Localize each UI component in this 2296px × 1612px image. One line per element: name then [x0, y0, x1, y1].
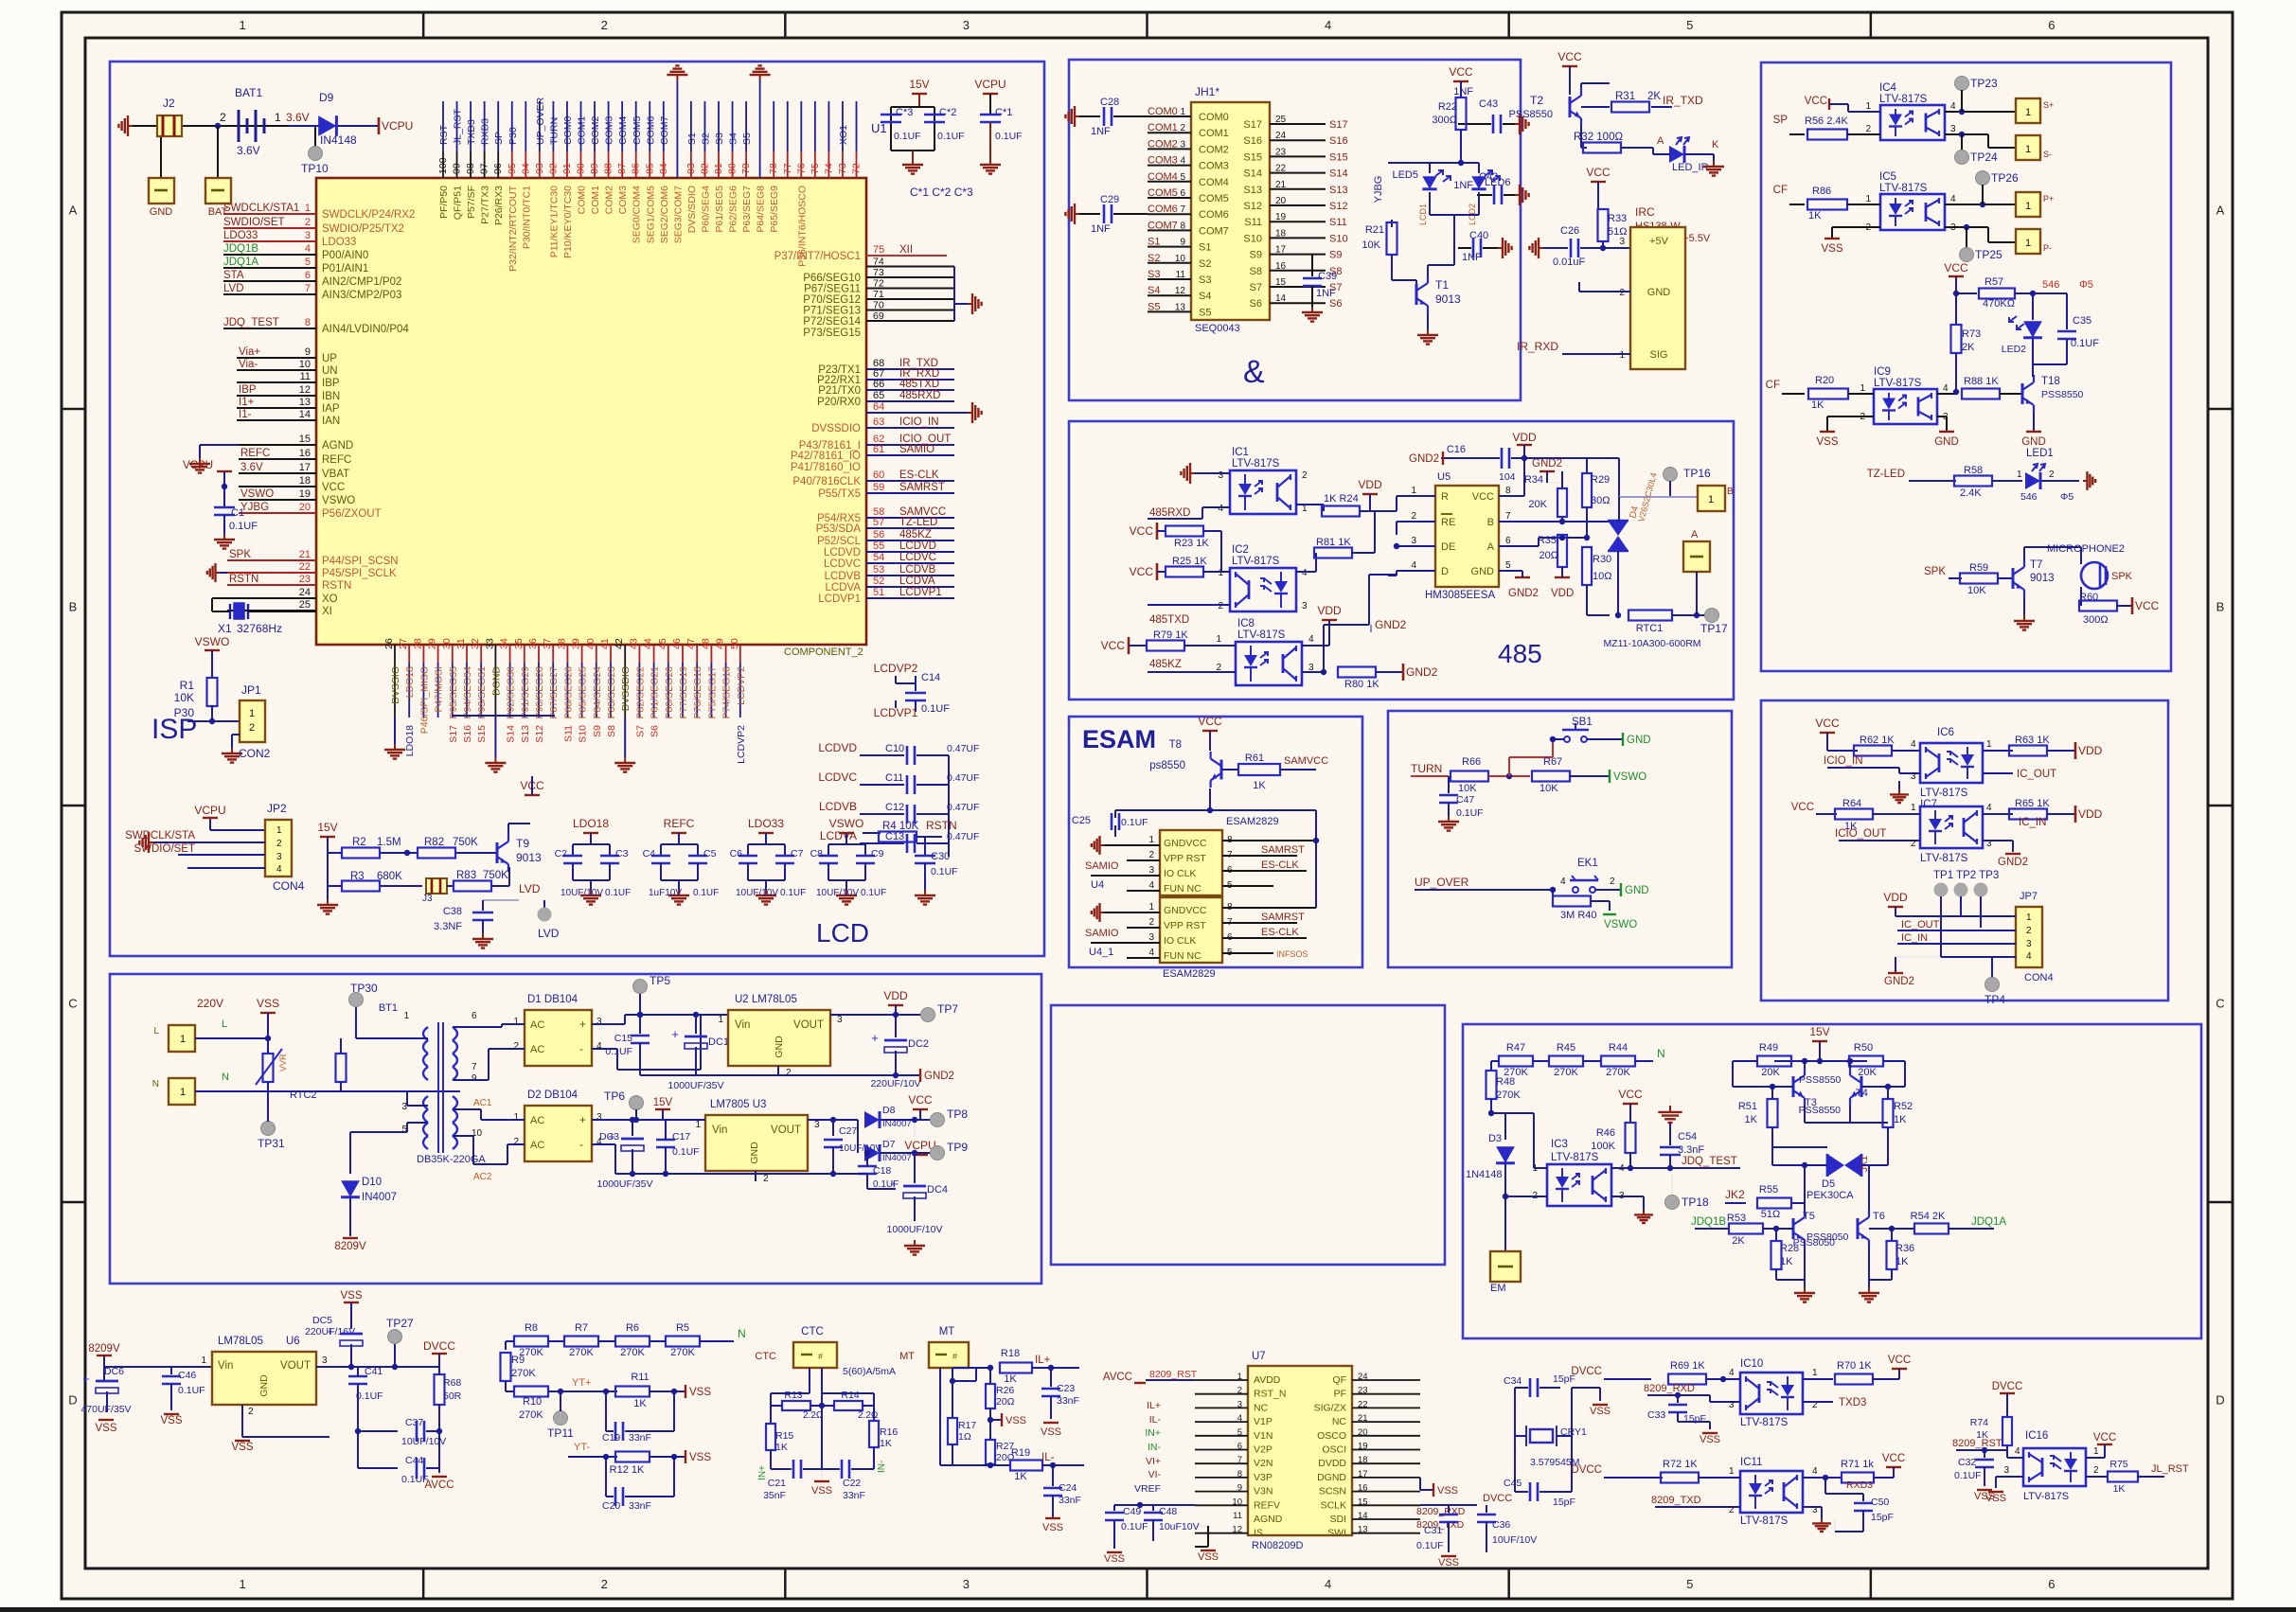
svg-text:JP7: JP7 [2020, 891, 2038, 902]
svg-text:0.47UF: 0.47UF [947, 743, 979, 754]
svg-text:485KZ: 485KZ [899, 529, 932, 540]
svg-text:RSTN: RSTN [926, 819, 957, 832]
svg-text:D: D [68, 1393, 77, 1408]
svg-text:VCC: VCC [1805, 96, 1827, 107]
power flag VDD TP7 [883, 989, 958, 1022]
svg-text:9013: 9013 [516, 851, 542, 864]
svg-text:IC3: IC3 [1551, 1139, 1568, 1150]
svg-text:DGND: DGND [1317, 1472, 1346, 1483]
svg-text:LCDVB: LCDVB [899, 564, 936, 576]
svg-text:P82/SEG22: P82/SEG22 [634, 666, 646, 719]
svg-text:1K: 1K [1896, 1256, 1909, 1267]
svg-text:3.6V: 3.6V [240, 462, 263, 473]
svg-text:4: 4 [1560, 877, 1566, 887]
svg-text:SEG0/COM4: SEG0/COM4 [632, 186, 643, 243]
svg-text:Vin: Vin [218, 1360, 233, 1372]
svg-text:GND2: GND2 [1375, 618, 1407, 631]
svg-text:IAN: IAN [322, 416, 340, 427]
svg-text:37: 37 [542, 638, 553, 649]
svg-text:VCC: VCC [2135, 599, 2160, 612]
svg-text:TP11: TP11 [547, 1426, 574, 1440]
svg-text:C20: C20 [602, 1500, 620, 1512]
svg-text:TP18: TP18 [1682, 1196, 1709, 1209]
svg-text:S16: S16 [1329, 135, 1348, 147]
svg-text:PSS8550: PSS8550 [1799, 1074, 1842, 1086]
svg-text:5: 5 [1505, 560, 1511, 571]
resistor R82 750K [407, 837, 497, 859]
svg-text:35: 35 [513, 638, 525, 649]
svg-text:TURN: TURN [1411, 762, 1442, 775]
svg-text:31: 31 [455, 638, 467, 649]
svg-text:EK1: EK1 [1577, 858, 1598, 869]
wires U4_1 left pins [1085, 928, 1160, 958]
svg-text:10UF/10V: 10UF/10V [1492, 1534, 1537, 1546]
svg-text:100K: 100K [1591, 1141, 1615, 1152]
svg-text:VSWO: VSWO [1604, 919, 1637, 930]
svg-text:RSTN: RSTN [322, 580, 351, 592]
svg-text:IL+: IL+ [1147, 1400, 1161, 1411]
svg-text:20Ω: 20Ω [996, 1396, 1015, 1408]
svg-text:1: 1 [1729, 1466, 1735, 1477]
capacitors C31 C36 DVCC [1416, 1493, 1537, 1568]
svg-text:ps8550: ps8550 [1149, 760, 1185, 771]
svg-text:C33: C33 [1647, 1409, 1665, 1421]
svg-text:2: 2 [1411, 511, 1416, 522]
svg-text:A: A [69, 204, 78, 218]
svg-text:GND2: GND2 [924, 1071, 954, 1082]
svg-text:3.6V: 3.6V [237, 144, 260, 157]
svg-text:X1: X1 [218, 622, 232, 635]
optocoupler IC8 [1148, 618, 1314, 685]
test point TP6 15V [604, 1089, 673, 1123]
resistors R47 R45 R44 row [1491, 1042, 1665, 1078]
svg-text:1: 1 [1148, 902, 1154, 912]
ground bottom stub left [384, 717, 405, 759]
svg-text:9013: 9013 [2030, 573, 2055, 584]
svg-text:AC: AC [530, 1115, 544, 1126]
wires U4 left pins [1085, 860, 1160, 891]
wires U4_1 right pins [1222, 841, 1316, 959]
svg-text:COM0: COM0 [562, 116, 574, 145]
svg-text:P93/SEG31: P93/SEG31 [476, 666, 488, 719]
svg-text:R66: R66 [1462, 756, 1481, 768]
LED2 [2002, 293, 2067, 364]
svg-text:ESAM: ESAM [1082, 725, 1156, 753]
svg-text:ICIO_IN: ICIO_IN [899, 416, 939, 428]
svg-text:S+: S+ [2043, 100, 2054, 110]
svg-text:1: 1 [1911, 803, 1916, 813]
svg-text:T2: T2 [1530, 94, 1543, 107]
svg-text:VCPU: VCPU [194, 804, 225, 817]
svg-text:C50: C50 [1871, 1497, 1889, 1508]
svg-text:VCC: VCC [1888, 1355, 1911, 1366]
svg-text:11: 11 [1233, 1511, 1242, 1521]
transistor T5 PSS8050 [1793, 1203, 1849, 1280]
svg-text:IN4007: IN4007 [362, 1192, 397, 1203]
svg-text:AVCC: AVCC [424, 1479, 454, 1491]
svg-text:4: 4 [1325, 1577, 1331, 1591]
svg-text:8: 8 [1505, 486, 1511, 496]
svg-text:12: 12 [299, 384, 311, 396]
svg-text:VCC: VCC [1472, 491, 1494, 503]
svg-text:2: 2 [1911, 839, 1916, 849]
svg-text:S9: S9 [1329, 250, 1342, 261]
svg-text:VCC: VCC [1449, 65, 1473, 79]
capacitor C35 0.1UF [2033, 293, 2099, 377]
resistor R26 20R [986, 1368, 1015, 1439]
regulator U3 LM7805 [632, 1099, 858, 1184]
svg-text:S2: S2 [701, 133, 712, 145]
svg-text:0.1UF: 0.1UF [1121, 817, 1148, 828]
svg-text:2: 2 [1610, 877, 1615, 887]
svg-text:GND2: GND2 [1406, 665, 1438, 679]
svg-text:IC_OUT: IC_OUT [2017, 769, 2056, 780]
svg-text:JDQ1B: JDQ1B [223, 243, 258, 255]
svg-text:IBN: IBN [322, 391, 340, 402]
svg-text:+: + [671, 1027, 679, 1041]
svg-text:N: N [1657, 1047, 1665, 1060]
svg-text:C14: C14 [921, 672, 940, 683]
svg-text:EM: EM [1490, 1283, 1506, 1294]
svg-text:IC1: IC1 [1232, 447, 1249, 458]
connector JP2 with CON4 [125, 802, 305, 893]
svg-text:R4 10K: R4 10K [882, 821, 919, 832]
svg-text:4: 4 [1812, 1466, 1818, 1477]
svg-text:SIG/ZX: SIG/ZX [1314, 1402, 1346, 1413]
svg-text:VSS: VSS [1104, 1553, 1125, 1565]
capacitors C27 C18 [824, 1117, 899, 1190]
svg-text:C23: C23 [1057, 1383, 1075, 1394]
svg-text:P44/SPI_SCSN: P44/SPI_SCSN [322, 556, 399, 567]
svg-text:LTV-817S: LTV-817S [1920, 853, 1968, 864]
svg-text:72: 72 [851, 163, 863, 174]
svg-text:T4: T4 [1856, 1088, 1868, 1099]
svg-text:V2P: V2P [1254, 1444, 1273, 1456]
svg-text:XII: XII [899, 244, 913, 256]
svg-text:LDO33: LDO33 [223, 230, 258, 241]
svg-text:0.47UF: 0.47UF [947, 802, 979, 813]
resistor R10 270K [506, 1387, 606, 1422]
LED_IR [1653, 137, 1724, 176]
svg-text:LCD1: LCD1 [1418, 204, 1428, 225]
svg-text:C45: C45 [1504, 1478, 1522, 1489]
svg-text:STA: STA [223, 270, 244, 281]
svg-text:MT: MT [899, 1351, 915, 1362]
svg-text:COM3: COM3 [617, 186, 629, 214]
svg-text:0.1UF: 0.1UF [931, 866, 958, 877]
svg-text:P91/SEG29: P91/SEG29 [520, 666, 531, 719]
svg-text:L: L [153, 1026, 159, 1036]
svg-text:U5: U5 [1437, 471, 1451, 483]
svg-text:COM1: COM1 [1199, 128, 1229, 139]
svg-text:LCDVP2: LCDVP2 [736, 725, 747, 764]
svg-text:YT+: YT+ [572, 1377, 591, 1389]
current transformer MT [899, 1326, 969, 1465]
sub-circuit box ICIO [1761, 700, 2168, 1001]
svg-text:7: 7 [305, 283, 311, 294]
capacitor C44 0.1UF AVCC [358, 1431, 454, 1491]
svg-text:SWDCLK/P24/RX2: SWDCLK/P24/RX2 [322, 209, 415, 221]
svg-text:LCDVA: LCDVA [826, 582, 862, 593]
svg-text:S7: S7 [634, 725, 646, 737]
capacitor C26 0.01uF [1529, 225, 1606, 268]
svg-text:DC2: DC2 [908, 1038, 929, 1050]
svg-text:1: 1 [513, 1017, 519, 1027]
svg-text:C21: C21 [768, 1478, 786, 1489]
svg-text:R62 1K: R62 1K [1860, 735, 1895, 746]
svg-text:1: 1 [513, 1112, 519, 1123]
transistor T9 9013 [497, 824, 542, 872]
svg-text:LDO18: LDO18 [404, 666, 416, 698]
svg-text:+: + [82, 1372, 90, 1386]
MCU left pins rows 21-25 [227, 549, 399, 617]
svg-text:SEG1/COM5: SEG1/COM5 [645, 186, 656, 243]
bridge rectifier D2 DB104 [453, 1089, 852, 1182]
ground for U4_1 [1092, 903, 1160, 922]
svg-text:17: 17 [299, 462, 311, 473]
svg-text:VDD: VDD [1358, 478, 1382, 491]
optocoupler IC10 row [1571, 1355, 1911, 1428]
svg-text:CF: CF [1766, 380, 1780, 391]
svg-text:DVCC: DVCC [1571, 1366, 1602, 1377]
svg-text:70: 70 [873, 300, 884, 311]
svg-text:15pF: 15pF [1871, 1512, 1894, 1523]
svg-text:270K: 270K [569, 1347, 594, 1358]
svg-text:SPK: SPK [2111, 571, 2133, 582]
svg-text:S10: S10 [1243, 233, 1262, 244]
transformer BT1 [341, 1002, 486, 1165]
svg-text:1NF: 1NF [1091, 223, 1111, 235]
svg-text:10Ω: 10Ω [1593, 571, 1611, 582]
terminal EM box [1490, 1196, 1521, 1294]
svg-text:C25: C25 [1072, 815, 1091, 826]
svg-text:P60/SEG4: P60/SEG4 [700, 186, 711, 233]
svg-text:1: 1 [2025, 144, 2031, 155]
power flag VDD mid [1358, 478, 1382, 511]
resistor R49 20K [1733, 1042, 1791, 1087]
svg-text:GND: GND [1934, 436, 1959, 448]
svg-text:COM3: COM3 [604, 116, 615, 145]
svg-text:XO: XO [322, 593, 338, 605]
svg-text:C19: C19 [602, 1432, 620, 1444]
svg-text:IL-: IL- [1041, 1452, 1055, 1463]
svg-text:C26: C26 [1560, 225, 1579, 237]
svg-text:PSS8550: PSS8550 [1799, 1105, 1842, 1116]
ground for U4 [1092, 836, 1160, 855]
test point TP10 [301, 147, 329, 176]
svg-text:TP23: TP23 [1970, 77, 1998, 90]
svg-text:C*1 C*2 C*3: C*1 C*2 C*3 [910, 186, 973, 199]
svg-text:S13: S13 [1329, 185, 1348, 196]
capacitor C*3 C*2 with 15V [881, 78, 965, 174]
svg-text:R21: R21 [1365, 224, 1384, 236]
svg-text:6: 6 [472, 1011, 477, 1021]
svg-text:UP: UP [322, 353, 337, 364]
svg-text:R56 2.4K: R56 2.4K [1805, 115, 1849, 127]
svg-text:546: 546 [2042, 279, 2059, 291]
resistor R68 50R [435, 1367, 462, 1473]
svg-text:RST: RST [438, 124, 450, 145]
svg-text:R54 2K: R54 2K [1911, 1211, 1946, 1222]
svg-text:COMPONENT_2: COMPONENT_2 [784, 647, 863, 658]
svg-text:1: 1 [1865, 194, 1871, 204]
svg-text:R11: R11 [631, 1372, 649, 1383]
svg-text:S8: S8 [1250, 266, 1262, 277]
svg-text:1K: 1K [880, 1438, 892, 1449]
svg-text:P66/SEG10: P66/SEG10 [803, 273, 861, 284]
svg-text:C3: C3 [615, 848, 629, 859]
resistor R46 100K with VCC [1591, 1088, 1666, 1171]
svg-text:74: 74 [873, 257, 884, 268]
svg-text:95: 95 [507, 163, 518, 174]
svg-text:81: 81 [713, 163, 724, 174]
svg-text:S8: S8 [606, 725, 617, 737]
svg-text:R69 1K: R69 1K [1670, 1360, 1705, 1372]
svg-text:COM0: COM0 [577, 186, 588, 214]
svg-text:J2: J2 [163, 97, 175, 110]
svg-text:TP16: TP16 [1683, 467, 1711, 480]
TVS D5 PEK30CA [1772, 1123, 1888, 1201]
svg-text:SPK: SPK [229, 549, 251, 560]
svg-text:87: 87 [616, 163, 628, 174]
svg-text:S9: S9 [1250, 250, 1262, 261]
test point TP5 [633, 974, 671, 1018]
svg-text:S5: S5 [1148, 301, 1160, 312]
terminal S+ box [2016, 98, 2054, 123]
svg-text:69: 69 [873, 310, 884, 322]
svg-text:LDO33: LDO33 [748, 817, 784, 830]
svg-text:10UF/10V: 10UF/10V [839, 1143, 881, 1154]
resistor R33 51R with VCC [1586, 166, 1630, 248]
capacitor C42 1NF [1453, 171, 1528, 205]
svg-text:D: D [2216, 1393, 2224, 1408]
svg-text:R12 1K: R12 1K [610, 1464, 645, 1476]
svg-text:R74: R74 [1970, 1417, 1988, 1428]
terminal S- box [2016, 135, 2052, 160]
svg-text:TP26: TP26 [1991, 171, 2019, 185]
svg-text:SCSN: SCSN [1319, 1486, 1346, 1497]
svg-text:LTV-817S: LTV-817S [1232, 458, 1280, 469]
svg-text:TP9: TP9 [947, 1141, 968, 1154]
svg-text:C16: C16 [1447, 444, 1466, 455]
svg-text:MZ11-10A300-600RM: MZ11-10A300-600RM [1603, 638, 1700, 649]
transistor T3 PSS8550 [1733, 1058, 1842, 1123]
svg-text:VCPU: VCPU [974, 78, 1006, 91]
svg-text:4: 4 [1950, 101, 1956, 112]
svg-text:S1: S1 [686, 133, 698, 145]
svg-text:VCC: VCC [1198, 715, 1222, 728]
wire bottom bus segment [453, 715, 555, 717]
svg-text:R44: R44 [1609, 1042, 1628, 1054]
svg-text:LCDVD: LCDVD [824, 547, 861, 558]
svg-text:3: 3 [276, 852, 282, 862]
svg-text:#: # [952, 1352, 957, 1361]
resistor R1 and jumper JP1 [174, 635, 271, 763]
svg-text:DC4: DC4 [927, 1184, 948, 1196]
svg-text:C39: C39 [1318, 271, 1337, 282]
svg-text:GND: GND [2021, 436, 2046, 448]
svg-text:1000UF/35V: 1000UF/35V [597, 1178, 653, 1190]
svg-text:S11: S11 [1329, 217, 1347, 228]
svg-text:CTC: CTC [755, 1351, 776, 1362]
svg-text:1K: 1K [1780, 1256, 1793, 1267]
svg-text:P71/SEG13: P71/SEG13 [803, 306, 861, 317]
label LVD and capacitor C38 [434, 882, 560, 948]
crystal X1 32768Hz [212, 598, 316, 635]
svg-text:0.1UF: 0.1UF [1121, 1521, 1148, 1532]
svg-text:COM1: COM1 [590, 186, 601, 214]
svg-text:AC: AC [530, 1044, 544, 1055]
svg-text:VCC: VCC [1791, 802, 1814, 813]
svg-text:LTV-817S: LTV-817S [1879, 183, 1928, 194]
svg-text:44: 44 [643, 638, 654, 649]
svg-text:C4: C4 [643, 848, 656, 859]
sub-circuit box MCU/ISP/LCD [110, 62, 1044, 956]
resistor R50 20K [1849, 1042, 1905, 1087]
svg-text:VSS: VSS [95, 1423, 116, 1434]
svg-text:D8: D8 [882, 1105, 896, 1116]
label JDQ_TEST TP18 [1665, 1156, 1741, 1210]
svg-text:LVD: LVD [519, 882, 541, 895]
transistor T1 9013 [1416, 235, 1461, 345]
MCU top pin stubs with numbers and net labels [437, 97, 863, 271]
svg-text:TXD3: TXD3 [466, 119, 477, 145]
svg-text:D: D [1441, 566, 1449, 577]
svg-text:IC4: IC4 [1879, 82, 1897, 94]
svg-text:1: 1 [1986, 739, 1992, 750]
current transformer CTC [755, 1326, 896, 1424]
svg-text:485TXD: 485TXD [899, 379, 939, 390]
svg-text:S12: S12 [1329, 201, 1348, 212]
svg-text:SWDIO/SET: SWDIO/SET [133, 843, 195, 855]
svg-text:YT-: YT- [574, 1442, 590, 1453]
svg-text:485TXD: 485TXD [1149, 614, 1189, 626]
svg-text:R: R [1441, 491, 1449, 503]
svg-text:R3: R3 [350, 871, 365, 882]
svg-text:VSS: VSS [257, 997, 279, 1010]
svg-text:VCC: VCC [1618, 1088, 1643, 1101]
svg-text:LED1: LED1 [2026, 448, 2054, 459]
svg-text:CON4: CON4 [273, 879, 305, 893]
svg-text:SWDCLK/STA: SWDCLK/STA [125, 830, 195, 841]
svg-text:JDQ_TEST: JDQ_TEST [223, 317, 279, 328]
svg-text:P56/ZXOUT: P56/ZXOUT [322, 508, 382, 520]
svg-text:LTV-817S: LTV-817S [2023, 1491, 2069, 1502]
svg-text:R46: R46 [1596, 1127, 1615, 1139]
svg-text:P64/SEG8: P64/SEG8 [756, 186, 767, 233]
svg-text:COM2: COM2 [1199, 144, 1229, 155]
U7 left net labels [1103, 1369, 1198, 1495]
wire power common [630, 1171, 867, 1181]
svg-text:R36: R36 [1896, 1243, 1914, 1254]
svg-text:C41: C41 [365, 1366, 383, 1377]
svg-text:VDD: VDD [883, 989, 908, 1002]
svg-text:1000UF/10V: 1000UF/10V [887, 1224, 943, 1235]
svg-text:41: 41 [599, 638, 611, 649]
svg-text:3: 3 [1411, 536, 1416, 546]
svg-text:R71 1k: R71 1k [1841, 1459, 1874, 1470]
svg-text:10UF/10V: 10UF/10V [401, 1436, 446, 1447]
svg-text:COM5: COM5 [632, 116, 643, 145]
svg-text:SCLK: SCLK [1321, 1499, 1346, 1511]
svg-text:S2: S2 [1148, 253, 1160, 264]
svg-text:SAMIO: SAMIO [1085, 860, 1119, 872]
terminal A box [1683, 529, 1710, 615]
svg-text:P86/SEG26: P86/SEG26 [562, 666, 574, 719]
svg-text:VSS: VSS [689, 1387, 711, 1398]
svg-text:4: 4 [1302, 568, 1308, 578]
power flag VCPU TP9 [904, 1139, 968, 1160]
